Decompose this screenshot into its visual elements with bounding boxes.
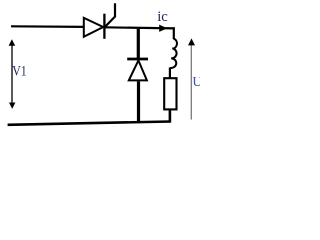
wire middle branch lower: [137, 81, 140, 123]
U arrowhead up: [188, 38, 195, 45]
wire cathode to corner (top-right horizontal): [104, 27, 174, 28]
inductor L coil: [170, 39, 177, 68]
V1 arrowhead up: [9, 39, 16, 46]
wire bottom rail: [8, 122, 171, 125]
thyristor T1 cathode bar: [103, 14, 105, 39]
wire right vertical (corner down): [173, 27, 175, 39]
source arrow V1 (double-headed): [11, 43, 13, 104]
resistor R body: [164, 78, 176, 109]
svg-text:ic: ic: [157, 9, 168, 25]
svg-text:V1: V1: [12, 63, 27, 79]
current arrow ic: [159, 25, 167, 32]
svg-text:U: U: [192, 75, 200, 90]
thyristor T1 triangle: [84, 18, 103, 37]
wire anode (top-left horizontal): [11, 25, 84, 28]
wire coil to resistor: [169, 68, 171, 80]
diode D cathode bar: [127, 58, 148, 61]
wire middle branch upper: [137, 29, 140, 58]
thyristor T1 gate lead: [105, 3, 115, 27]
voltage arrow U line: [190, 45, 192, 120]
wire resistor to bottom rail: [169, 109, 172, 122]
V1 arrowhead down: [9, 103, 15, 109]
diode D triangle: [129, 60, 147, 80]
